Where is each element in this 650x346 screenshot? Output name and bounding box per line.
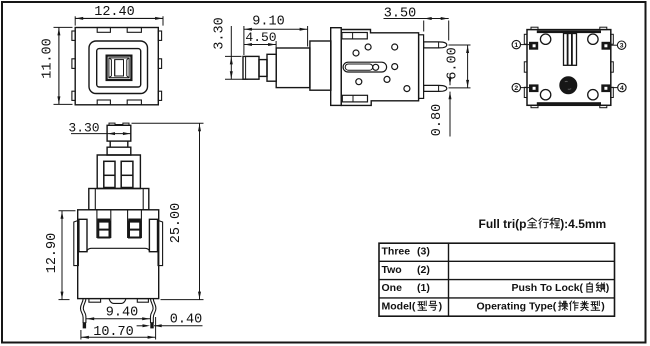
pin callout 3 <box>617 41 625 49</box>
top view side tab left top <box>72 31 75 40</box>
svg-text:0.40: 0.40 <box>170 312 202 327</box>
svg-text:):4.5mm: ):4.5mm <box>560 217 606 231</box>
front view right side tab <box>158 220 163 265</box>
dimension 4.50 extension line <box>275 41 277 53</box>
side view wide collar <box>310 41 331 90</box>
front view upper collar <box>107 147 131 155</box>
side view hole A <box>365 44 371 50</box>
front view body slot right <box>127 210 129 238</box>
dimension 9.40 line <box>86 318 150 320</box>
side view plunger collar <box>267 54 276 81</box>
dimension 10.70 extension lines <box>155 317 157 340</box>
bottom view terminal pad 1 <box>529 42 538 50</box>
top view side tab right middle <box>158 59 161 69</box>
side view plunger cap <box>243 56 259 79</box>
dimension 3.50 extension lines <box>423 21 425 32</box>
side view hole G <box>404 86 410 92</box>
spec table row lines <box>379 260 615 262</box>
svg-text:): ) <box>439 301 443 313</box>
bottom view corner lug bottom-left <box>531 105 538 107</box>
front view left clip <box>79 219 87 251</box>
bottom view guide hole bottom-left <box>540 90 550 100</box>
front view left leg <box>81 299 84 323</box>
svg-text:Three: Three <box>382 246 411 258</box>
top view bottom edge notch right <box>127 100 141 105</box>
bottom view terminal pad 3 <box>602 42 611 50</box>
svg-text:9.40: 9.40 <box>106 305 138 320</box>
svg-text:3.30: 3.30 <box>68 120 99 135</box>
front view stem <box>110 141 128 147</box>
dimension 0.40 leader arrows <box>137 325 147 327</box>
side view plunger neck <box>259 60 267 77</box>
top view keycap right rib <box>126 60 128 76</box>
bottom view body outline <box>527 30 611 106</box>
dimension 12.90 line <box>61 211 63 300</box>
top view inner square <box>97 49 141 87</box>
svg-text:3.30: 3.30 <box>213 17 228 49</box>
dimension 11.00 extension lines <box>54 26 73 28</box>
svg-text:Full tri(p: Full tri(p <box>479 217 527 231</box>
side view hole E <box>356 79 362 85</box>
front view main body <box>78 210 159 299</box>
front view left side tab <box>74 220 79 265</box>
svg-text:Model(: Model( <box>382 301 416 313</box>
svg-text:12.90: 12.90 <box>45 233 60 274</box>
svg-text:): ) <box>601 301 605 313</box>
svg-text:6.00: 6.00 <box>446 47 461 79</box>
svg-text:2: 2 <box>514 85 518 92</box>
svg-text:4.50: 4.50 <box>245 30 276 45</box>
side view hole D <box>392 64 398 70</box>
top view rounded boss <box>89 41 148 94</box>
front view top block left window <box>104 161 115 187</box>
dimension 4.50 line <box>244 44 276 46</box>
dimension 25.00 extension lines <box>132 122 204 124</box>
bottom view side tabs right <box>611 34 614 44</box>
bottom view side tabs left <box>524 34 527 44</box>
pin callout 2 <box>512 83 520 91</box>
pin callout 4 <box>618 83 626 91</box>
svg-text:0.80: 0.80 <box>430 104 445 136</box>
bottom view guide hole bottom-right <box>588 90 598 100</box>
bottom view bottom edge plate <box>537 102 601 105</box>
dimension 12.40 extension lines <box>74 16 76 25</box>
front view right leg <box>153 299 156 323</box>
svg-text:Two: Two <box>382 264 402 276</box>
side view cam slot <box>343 62 387 72</box>
bottom view corner lug top-left <box>531 27 538 29</box>
side view bottom-left mounting lug <box>342 95 367 102</box>
dimension 0.80 arrows <box>449 74 451 86</box>
dimension 6.00 line <box>467 45 469 88</box>
front view top block right window <box>121 161 133 187</box>
svg-text:9.10: 9.10 <box>252 15 284 30</box>
svg-text:Operating Type(: Operating Type( <box>477 301 557 313</box>
svg-text:(3): (3) <box>417 246 430 258</box>
dimension 9.10 line <box>244 28 308 30</box>
svg-text:3: 3 <box>620 43 624 50</box>
top view side tab left middle <box>72 59 75 69</box>
side view top-left mounting lug <box>342 33 367 39</box>
dimension 12.90 extension lines <box>59 210 76 212</box>
svg-text:25.00: 25.00 <box>169 203 184 244</box>
side view terminal pin lower <box>424 85 447 91</box>
dimension 10.70 line <box>81 336 156 338</box>
svg-text:10.70: 10.70 <box>93 325 134 340</box>
front view cap <box>107 125 131 141</box>
side view hole F <box>384 76 390 82</box>
top view keycap outer <box>107 56 132 80</box>
dimension 3.50 line <box>384 18 449 20</box>
svg-text:11.00: 11.00 <box>41 38 56 79</box>
side view hole B <box>353 50 359 56</box>
top view keycap center plate <box>115 60 124 76</box>
front view bottom boss right <box>137 299 148 303</box>
side view body outline <box>341 30 418 106</box>
bottom view center slot <box>564 34 577 66</box>
front view inner frame line <box>87 248 149 251</box>
svg-text:(1): (1) <box>417 282 430 294</box>
bottom view guide hole top-right <box>588 34 598 44</box>
spec table frame <box>379 243 615 316</box>
svg-text:): ) <box>606 282 610 294</box>
svg-text:1: 1 <box>514 42 518 49</box>
front view housing top block <box>97 155 140 189</box>
bottom view terminal pad 4 <box>601 84 611 92</box>
side view cam pin <box>373 64 379 70</box>
front view body slot left <box>96 210 98 238</box>
svg-text:4: 4 <box>620 85 624 92</box>
top view side tab left bottom <box>72 91 75 100</box>
side view right plate <box>419 35 424 99</box>
bottom view corner lug bottom-right <box>600 105 607 107</box>
bottom view terminal pad 2 <box>529 84 539 92</box>
side view plunger shaft <box>276 48 310 88</box>
side view mounting flange <box>331 28 342 106</box>
front view bottom center dome <box>109 299 126 304</box>
front view bottom boss left <box>89 299 101 303</box>
side view hole C <box>392 44 398 50</box>
bottom view locking knob <box>560 77 577 94</box>
top view keycap inner frame <box>109 58 129 78</box>
dimension 3.30 line side view <box>230 26 232 79</box>
top view body outline <box>75 28 158 105</box>
svg-text:One: One <box>382 282 403 294</box>
dimension 6.00 extension lines <box>449 44 471 46</box>
dimension 12.40 line <box>75 17 163 19</box>
dimension 3.30 extension lines side view <box>225 55 242 57</box>
dimension 11.00 line <box>58 27 60 104</box>
svg-text:(2): (2) <box>417 264 430 276</box>
front view cap top bumps <box>109 123 115 125</box>
svg-text:Push To Lock(: Push To Lock( <box>512 282 584 294</box>
side view terminal pin upper <box>424 42 447 48</box>
top view side tab right bottom <box>158 91 161 100</box>
dimension 9.10 extension lines <box>243 26 245 55</box>
pin callout 1 <box>512 40 520 48</box>
svg-text:3.50: 3.50 <box>384 6 416 21</box>
bottom view top edge plate <box>537 31 601 34</box>
top view side tab right top <box>158 31 161 40</box>
top view top edge notch left <box>97 28 110 33</box>
front view right clip <box>149 219 157 251</box>
bottom view guide hole top-left <box>540 34 550 44</box>
top view keycap left rib <box>110 60 112 76</box>
bottom view corner lug top-right <box>600 27 607 29</box>
top view top edge notch right <box>127 28 141 33</box>
top view bottom edge notch left <box>97 100 110 105</box>
front view middle block <box>89 189 149 210</box>
spec table column line <box>448 243 450 316</box>
dimension 25.00 line <box>199 123 201 299</box>
